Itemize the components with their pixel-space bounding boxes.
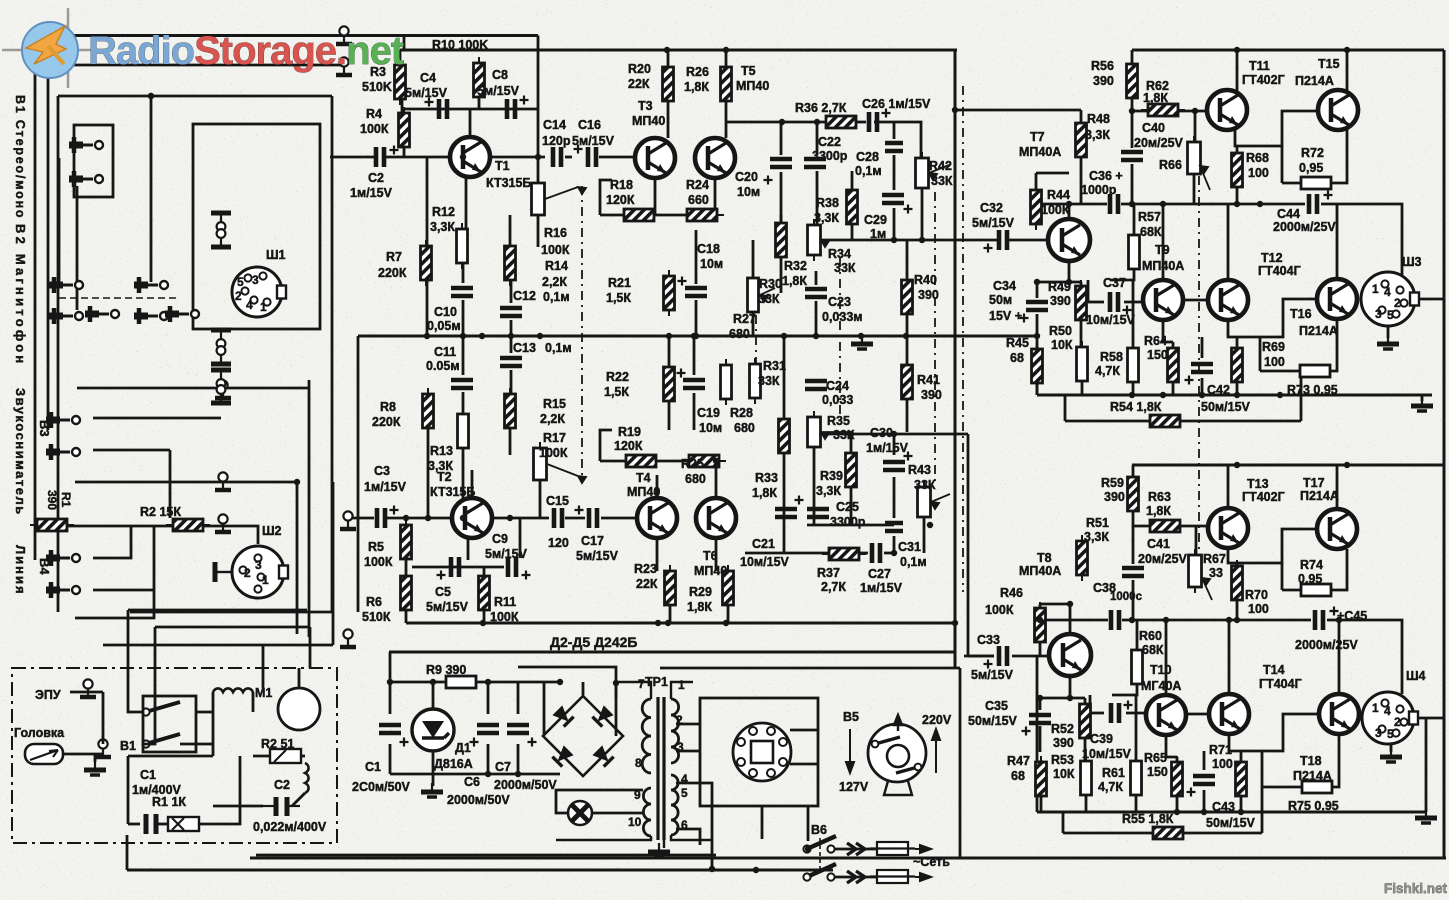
resistor R54 xyxy=(1143,415,1187,427)
wire R57 bot xyxy=(1110,268,1134,280)
svg-text:C43: C43 xyxy=(1212,800,1235,814)
svg-text:10м/15V: 10м/15V xyxy=(740,555,790,569)
wire D1 top xyxy=(432,682,435,709)
contact B1 a xyxy=(69,137,103,153)
wire R46 col xyxy=(1039,604,1042,608)
svg-text:33К: 33К xyxy=(931,174,953,188)
wire T1 emitter xyxy=(465,177,468,230)
svg-text:ГТ404Г: ГТ404Г xyxy=(1259,677,1302,691)
svg-text:1м/15V: 1м/15V xyxy=(860,581,903,595)
svg-text:510К: 510К xyxy=(362,610,391,624)
svg-text:МП40А: МП40А xyxy=(1019,145,1061,159)
svg-text:33К: 33К xyxy=(914,478,936,492)
connector Sh3 xyxy=(1361,272,1419,326)
svg-text:R17: R17 xyxy=(543,431,566,445)
resistor R41 xyxy=(902,359,913,405)
node xyxy=(535,154,541,160)
wire head gnd drop xyxy=(94,754,97,762)
transistor T14 xyxy=(1209,694,1249,734)
potentiometer R66 xyxy=(1188,136,1201,180)
resistor R40 xyxy=(902,274,913,320)
svg-text:3,3К: 3,3К xyxy=(814,211,839,225)
node xyxy=(148,93,154,99)
svg-text:C9: C9 xyxy=(492,532,508,546)
wire EPU drop xyxy=(127,756,130,824)
svg-text:C7: C7 xyxy=(495,760,511,774)
wire supply bus right module xyxy=(1132,49,1444,52)
transistor T3 xyxy=(635,138,675,178)
wire R54 row xyxy=(1065,420,1151,423)
gang link R16-R17 xyxy=(581,186,583,478)
svg-text:4,7К: 4,7К xyxy=(1098,780,1123,794)
node xyxy=(781,333,787,339)
svg-text:120К: 120К xyxy=(614,439,643,453)
svg-text:R21: R21 xyxy=(608,276,631,290)
wire col x333 xyxy=(332,482,335,645)
svg-text:R18: R18 xyxy=(610,178,633,192)
svg-text:Т2: Т2 xyxy=(437,470,452,484)
svg-text:C1: C1 xyxy=(140,768,156,782)
svg-text:100: 100 xyxy=(1264,355,1285,369)
capacitor C8 xyxy=(507,96,529,120)
wire T14drv emitter xyxy=(1229,734,1241,751)
resistor R63 xyxy=(1143,520,1187,532)
wire R18 row xyxy=(600,214,625,217)
wire T9 collector xyxy=(1162,204,1165,279)
node xyxy=(1067,695,1073,701)
wire R61 bot xyxy=(1135,795,1138,812)
motor M1 xyxy=(278,688,320,730)
wire lower supply bus xyxy=(1132,464,1444,467)
wire C14-C16 link xyxy=(565,156,572,159)
wire R32 top xyxy=(780,215,783,224)
svg-text:Т10: Т10 xyxy=(1150,663,1172,677)
capacitor C10 xyxy=(451,288,473,296)
svg-text:4: 4 xyxy=(1384,704,1391,718)
node xyxy=(613,680,619,686)
wire Sh4 pin2 out xyxy=(1413,717,1444,720)
resistor R71 xyxy=(1236,756,1247,802)
ground under Sh4 xyxy=(1380,748,1402,762)
resistor R75 xyxy=(1295,781,1339,793)
wire R62 to T11 xyxy=(1177,110,1208,113)
wire sec 6 out xyxy=(676,829,700,845)
node xyxy=(813,333,819,339)
node xyxy=(1066,279,1072,285)
svg-text:Головка: Головка xyxy=(14,726,65,740)
svg-text:22К: 22К xyxy=(628,77,650,91)
capacitor C35 xyxy=(1022,715,1052,736)
resistor R2 51 xyxy=(270,749,301,763)
svg-text:C41: C41 xyxy=(1147,537,1170,551)
wire C6 bot xyxy=(487,744,490,774)
wire C32 to T7 xyxy=(1009,239,1048,242)
svg-text:50м/15V: 50м/15V xyxy=(968,714,1018,728)
capacitor C19 xyxy=(677,369,706,389)
svg-text:C23: C23 xyxy=(828,295,851,309)
transistor T16 xyxy=(1317,279,1357,319)
svg-text:2: 2 xyxy=(676,713,683,727)
svg-text:1,5К: 1,5К xyxy=(604,385,629,399)
wire T7 collector xyxy=(1068,204,1071,219)
svg-text:Т13: Т13 xyxy=(1247,477,1269,491)
wire T4 collector xyxy=(656,475,659,497)
arrow pot R30 xyxy=(760,288,775,302)
svg-text:1: 1 xyxy=(678,678,685,692)
svg-text:680: 680 xyxy=(685,472,706,486)
switch B6 link dash xyxy=(819,838,821,872)
capacitor C13 xyxy=(500,358,522,366)
capacitor C12 xyxy=(500,308,522,316)
transistor T1 xyxy=(450,137,490,177)
wire C40 bot xyxy=(1131,164,1134,204)
svg-text:4: 4 xyxy=(246,298,253,312)
svg-text:R19: R19 xyxy=(618,425,641,439)
svg-text:C16: C16 xyxy=(578,118,601,132)
svg-text:R69: R69 xyxy=(1262,340,1285,354)
resistor R51 xyxy=(1077,535,1088,581)
node xyxy=(952,107,958,113)
wire C5-C9 row xyxy=(412,566,504,569)
wire C4-C8 row xyxy=(404,108,538,111)
ground bottom right xyxy=(1415,809,1437,823)
node xyxy=(952,620,958,626)
node top box junction xyxy=(148,93,154,99)
svg-text:R7: R7 xyxy=(386,250,402,264)
terminal R2 out xyxy=(215,514,231,532)
capacitor C1 psu xyxy=(379,725,409,747)
wire R37-C27 xyxy=(858,552,868,555)
wire T7 input bus xyxy=(955,109,1081,112)
wire C41 bot xyxy=(1132,580,1135,620)
svg-text:C30: C30 xyxy=(870,426,893,440)
resistor R8 xyxy=(423,388,434,434)
terminal head xyxy=(95,739,111,757)
node xyxy=(891,237,897,243)
wire C29 bottom xyxy=(893,208,896,240)
capacitor C14 xyxy=(553,147,561,167)
wire R33 stem xyxy=(783,336,786,419)
svg-text:R47: R47 xyxy=(1007,754,1030,768)
wire PSU bottom rail xyxy=(390,773,560,776)
contact B4 b xyxy=(46,582,80,598)
wire bridge left xyxy=(543,682,546,735)
node xyxy=(1034,333,1040,339)
resistor R14 xyxy=(505,240,516,286)
svg-text:1: 1 xyxy=(262,573,269,587)
chevron mains 2 xyxy=(847,871,865,883)
wire T1 collector column xyxy=(537,36,540,158)
resistor R49 xyxy=(1076,280,1087,326)
wire C30 stem xyxy=(893,434,896,455)
wire C7 top xyxy=(517,682,520,714)
svg-text:R34: R34 xyxy=(828,247,851,261)
capacitor C32 xyxy=(984,230,1008,253)
wire R6 bot xyxy=(405,609,408,623)
potentiometer R42 xyxy=(916,152,929,194)
node xyxy=(557,679,563,685)
wire C35 stem xyxy=(1039,698,1042,710)
svg-text:10м: 10м xyxy=(699,421,722,435)
svg-text:100К: 100К xyxy=(360,122,389,136)
svg-text:МП40А: МП40А xyxy=(1142,259,1184,273)
svg-text:10м: 10м xyxy=(737,185,760,199)
svg-text:68К: 68К xyxy=(1142,643,1164,657)
wire into C33 xyxy=(968,655,994,658)
svg-text:R28: R28 xyxy=(730,406,753,420)
svg-text:0,1м: 0,1м xyxy=(855,164,882,178)
wire R18 left up xyxy=(600,180,612,215)
wire rail drop x1037 xyxy=(1036,336,1039,395)
svg-text:R51: R51 xyxy=(1086,516,1109,530)
node xyxy=(460,154,466,160)
node xyxy=(713,458,719,464)
wire R19-R25 xyxy=(657,460,688,463)
fuse F2 xyxy=(870,870,915,883)
contact Sh2 left xyxy=(215,562,231,582)
svg-text:390: 390 xyxy=(45,490,59,510)
wire R43 bot xyxy=(923,518,926,553)
wire T18 collector xyxy=(1338,620,1341,694)
svg-text:R39: R39 xyxy=(820,469,843,483)
svg-text:C2: C2 xyxy=(368,171,384,185)
svg-text:C8: C8 xyxy=(492,68,508,82)
svg-text:В6: В6 xyxy=(811,823,827,837)
capacitor C42 xyxy=(1185,364,1214,385)
svg-text:C3: C3 xyxy=(374,464,390,478)
capacitor C41 xyxy=(1122,568,1144,576)
transistor T9 xyxy=(1143,280,1183,320)
node xyxy=(753,867,759,873)
wire supply rail to PSU xyxy=(389,651,955,654)
svg-text:МП40: МП40 xyxy=(632,114,665,128)
node xyxy=(1234,47,1240,53)
node xyxy=(507,515,513,521)
capacitor C6 xyxy=(470,725,500,747)
svg-text:R41: R41 xyxy=(917,373,940,387)
svg-text:150: 150 xyxy=(1147,765,1168,779)
ground under TP1 xyxy=(648,843,670,857)
svg-text:10м: 10м xyxy=(700,257,723,271)
svg-text:R36 2,7К: R36 2,7К xyxy=(795,101,847,115)
wire R14 top xyxy=(509,215,512,246)
svg-text:R14: R14 xyxy=(545,259,568,273)
transistor T18 xyxy=(1319,694,1359,734)
svg-text:5м/15V: 5м/15V xyxy=(572,134,615,148)
wire top bus 2 xyxy=(48,64,344,67)
wire R69 col xyxy=(1236,337,1239,348)
wire C31 top xyxy=(893,502,896,518)
svg-text:R67: R67 xyxy=(1203,552,1226,566)
svg-text:1,8К: 1,8К xyxy=(684,80,709,94)
svg-text:Т18: Т18 xyxy=(1300,754,1322,768)
svg-text:3: 3 xyxy=(252,273,259,287)
arrow 220V xyxy=(932,729,940,773)
resistor R53 xyxy=(1081,755,1092,801)
svg-text:R4: R4 xyxy=(366,107,382,121)
wire R36 to C26 xyxy=(856,121,866,124)
svg-text:C22: C22 xyxy=(818,135,841,149)
wire mains row2 xyxy=(835,876,876,879)
node xyxy=(666,333,672,339)
wire R23 bot xyxy=(669,605,672,623)
wire right rail xyxy=(1443,50,1446,858)
resistor R52 xyxy=(1080,698,1091,744)
wire B1 b feed xyxy=(142,703,155,744)
node xyxy=(1226,617,1232,623)
wire R39 stem xyxy=(850,432,853,453)
svg-text:C44: C44 xyxy=(1277,207,1300,221)
capacitor C4 xyxy=(425,98,448,120)
wire T8 collector link xyxy=(1040,603,1070,606)
svg-text:3,3К: 3,3К xyxy=(430,220,455,234)
wire bottom rail long xyxy=(127,869,833,872)
wire C7 bot xyxy=(517,744,520,774)
arrow pot R66 xyxy=(1200,166,1210,190)
wire T16 base link xyxy=(1237,299,1317,337)
svg-text:R53: R53 xyxy=(1051,753,1074,767)
svg-text:68К: 68К xyxy=(1140,225,1162,239)
capacitor C1 mains xyxy=(146,814,156,834)
wire T10-T14 base xyxy=(1186,713,1209,716)
terminal EPU xyxy=(80,679,96,697)
capacitor C17 xyxy=(575,506,598,529)
wire C2 row xyxy=(330,156,374,159)
wire R68 col xyxy=(1236,146,1239,153)
wire T12drv collector xyxy=(1227,204,1230,279)
svg-text:RadioStorage.net: RadioStorage.net xyxy=(88,29,404,73)
plug 220V xyxy=(868,715,926,795)
wire C15-C17 link xyxy=(565,517,585,520)
resistor R50 xyxy=(1077,341,1088,387)
transistor T15 xyxy=(1318,90,1358,130)
wire R44 top link xyxy=(1036,172,1069,175)
node xyxy=(693,333,699,339)
connector Sh4 xyxy=(1362,692,1418,744)
wire R47 bot xyxy=(1040,796,1043,812)
wire inner selector box xyxy=(193,124,320,329)
svg-text:Т3: Т3 xyxy=(638,99,653,113)
connector Sh2 xyxy=(232,546,288,598)
gang link R30-R31 xyxy=(755,315,757,363)
wire to Sh2 pin xyxy=(246,526,258,544)
transistor T4 xyxy=(637,498,677,538)
wire T1 collector xyxy=(469,109,472,137)
node xyxy=(1160,201,1166,207)
wire C1 left edge xyxy=(389,652,392,714)
svg-text:C34: C34 xyxy=(993,279,1016,293)
box EPU dashed xyxy=(12,668,337,843)
wire R56 top xyxy=(1131,50,1134,64)
svg-text:R54 1,8К: R54 1,8К xyxy=(1110,400,1162,414)
svg-text:1: 1 xyxy=(260,300,267,314)
wire T16 collector xyxy=(1336,204,1339,278)
svg-text:Т7: Т7 xyxy=(1030,130,1045,144)
wire R22 top xyxy=(668,336,671,367)
transistor T11 xyxy=(1207,90,1247,130)
resistor R62 xyxy=(1141,104,1185,116)
svg-text:В5: В5 xyxy=(843,710,859,724)
wire C33 row xyxy=(964,655,994,658)
resistor R26 xyxy=(721,61,732,107)
svg-text:R40: R40 xyxy=(914,273,937,287)
svg-text:C19: C19 xyxy=(697,406,720,420)
wire C12 col xyxy=(510,280,513,303)
wire Sh3 pin2 out xyxy=(1413,298,1444,301)
capacitor C9 xyxy=(508,557,531,580)
wire R70 bot xyxy=(1236,600,1239,620)
wire col x263 down xyxy=(262,645,265,688)
wire preamp ground rail xyxy=(406,622,955,625)
node xyxy=(805,846,811,852)
wire C33 to T8 xyxy=(1012,655,1049,658)
svg-text:3,3К: 3,3К xyxy=(816,484,841,498)
wire C39 row xyxy=(1090,712,1104,715)
wire C22 bottom xyxy=(816,171,819,226)
wire R56-R62 xyxy=(1132,98,1149,111)
svg-text:660: 660 xyxy=(688,193,709,207)
resistor R48 xyxy=(1076,117,1087,163)
svg-text:C40: C40 xyxy=(1142,121,1165,135)
node xyxy=(403,515,409,521)
svg-text:1,5К: 1,5К xyxy=(606,291,631,305)
svg-text:R58: R58 xyxy=(1100,350,1123,364)
wire B1 to M1 coil xyxy=(196,711,213,714)
wire T5 to R36 xyxy=(726,121,827,124)
wire C19 col xyxy=(693,336,696,375)
wire pot R16 stem xyxy=(537,157,540,183)
capacitor C21 xyxy=(775,496,804,518)
wire R59-R63 xyxy=(1133,511,1151,526)
svg-text:В3: В3 xyxy=(37,420,52,437)
svg-text:150: 150 xyxy=(1147,348,1168,362)
wire T7 emitter xyxy=(1069,261,1081,282)
node xyxy=(814,119,820,125)
contact B1 b xyxy=(69,171,103,187)
svg-text:Т5: Т5 xyxy=(741,64,756,78)
node xyxy=(1234,201,1240,207)
connector B5 xyxy=(733,723,791,781)
resistor R11 xyxy=(479,570,490,616)
wire EPU entry xyxy=(70,691,103,694)
wire C37 row xyxy=(1088,301,1104,304)
wire C6 top xyxy=(487,682,490,714)
resistor R73 xyxy=(1293,365,1337,377)
svg-text:2000м/25V: 2000м/25V xyxy=(1295,638,1358,652)
wire selector row 2 xyxy=(75,481,297,484)
svg-text:C39: C39 xyxy=(1090,732,1113,746)
node xyxy=(508,333,514,339)
svg-text:R60: R60 xyxy=(1139,629,1162,643)
wire C35 bot xyxy=(1039,726,1042,752)
wire R26 to T5 xyxy=(725,101,728,122)
svg-text:C33: C33 xyxy=(977,633,1000,647)
svg-text:Т17: Т17 xyxy=(1303,476,1325,490)
wire R2 to terminal xyxy=(202,525,246,528)
svg-text:ГТ404Г: ГТ404Г xyxy=(1258,264,1301,278)
svg-text:R2 15К: R2 15К xyxy=(140,505,181,519)
svg-text:R45: R45 xyxy=(1006,336,1029,350)
svg-text:1,8К: 1,8К xyxy=(1143,91,1168,105)
svg-text:1: 1 xyxy=(1372,282,1379,296)
diode D1 D816A xyxy=(412,709,454,751)
wire C39 to T10 xyxy=(1126,712,1146,715)
svg-text:R65: R65 xyxy=(1144,751,1167,765)
capacitor C26 xyxy=(869,109,891,133)
wire R70 col xyxy=(1236,563,1239,566)
wire R1p row xyxy=(128,823,140,826)
svg-text:0,033: 0,033 xyxy=(822,393,853,407)
